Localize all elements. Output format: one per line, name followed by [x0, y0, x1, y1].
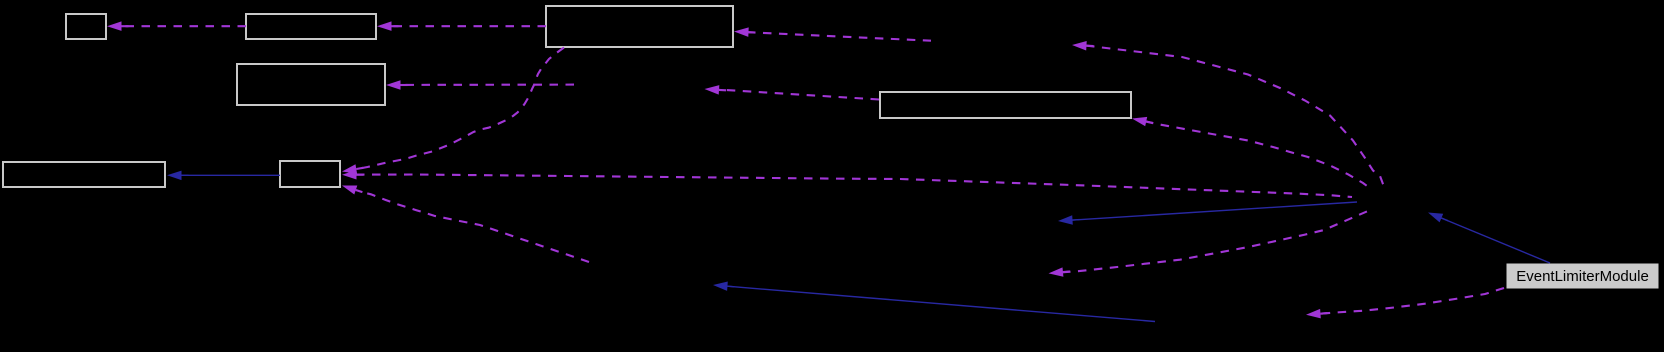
- svg-text:EventLimiterModule: EventLimiterModule: [1516, 268, 1649, 285]
